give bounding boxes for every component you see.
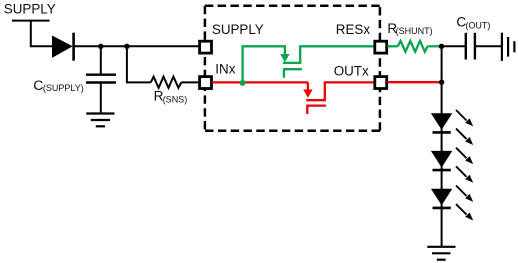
junction node B [124, 44, 129, 49]
wire capacitor to ground [100, 83, 102, 114]
supply rail bar [12, 20, 50, 22]
wire node A down to capacitor [100, 46, 102, 74]
LED D4 emission arrow 2 [456, 204, 473, 220]
capacitor C(SUPPLY) top plate [86, 73, 116, 75]
LED D3 emission arrow 1 [456, 148, 473, 164]
svg-text:INx: INx [215, 61, 235, 76]
svg-text:SUPPLY: SUPPLY [4, 1, 56, 16]
wire from supply bar down and right [31, 21, 52, 47]
LED D4 cathode bar [433, 207, 451, 210]
svg-text:(SHUNT): (SHUNT) [396, 26, 433, 36]
junction node green dot [240, 80, 246, 86]
LED D2 emission arrow 1 [456, 110, 473, 126]
pin RESx square [375, 41, 387, 53]
capacitor C(SUPPLY) bottom plate [86, 81, 116, 83]
capacitor C(OUT) left plate [465, 33, 467, 60]
LED D4 emission arrow 1 [456, 186, 473, 202]
LED D2 cathode bar [433, 131, 451, 134]
ground G1 [86, 114, 114, 127]
svg-text:RESx: RESx [336, 22, 371, 37]
wire output capacitor to ground [475, 45, 502, 47]
transistor Q2 channel bar (red) [306, 99, 326, 101]
wire LED string vertical [441, 46, 443, 247]
wire green tap up from node (green) [243, 46, 285, 83]
IC dashed box U1 [205, 6, 380, 131]
transistor Q1 gate plate (green) [283, 68, 302, 70]
transistor Q2 gate arrow (red) [303, 90, 312, 98]
resistor R(SNS) [151, 77, 182, 88]
transistor Q1 drain lead up and wire to RESx pin (green) [300, 46, 373, 63]
transistor Q2 gate lead down (red) [306, 106, 308, 114]
LED D3 triangle [431, 151, 452, 168]
LED D3 emission arrow 2 [456, 166, 473, 182]
LED D2 triangle [431, 113, 452, 130]
LED D2 emission arrow 2 [456, 129, 473, 145]
wire RESx pin to shunt resistor (green) [387, 45, 398, 47]
wire INx pin to red net (red) [212, 81, 308, 83]
svg-text:(SNS): (SNS) [163, 94, 188, 104]
transistor Q2 drain lead up and wire to OUTx pin (red) [325, 82, 374, 100]
svg-text:OUTx: OUTx [334, 63, 369, 78]
ground G3 sideways [502, 33, 515, 61]
resistor R(SHUNT) (green) [398, 41, 428, 52]
ground G2 [427, 247, 455, 260]
junction node D [439, 44, 444, 49]
diode D1 cathode bar [72, 33, 75, 61]
capacitor C(OUT) right plate [474, 33, 476, 60]
wire node D to output capacitor [442, 45, 467, 47]
diode D1 anode triangle [52, 36, 73, 58]
wire red down to transistor Q2 (red) [307, 82, 309, 90]
junction node A [98, 44, 103, 49]
svg-text:(OUT): (OUT) [465, 21, 490, 31]
junction node C [439, 80, 444, 85]
LED D4 triangle [431, 189, 452, 206]
svg-text:SUPPLY: SUPPLY [212, 22, 264, 37]
wire diode to SUPPLY pin [74, 45, 199, 47]
wire shunt resistor to node D (green) [428, 45, 442, 47]
svg-text:(SUPPLY): (SUPPLY) [43, 83, 84, 93]
pin INx square [200, 77, 212, 89]
transistor Q1 channel bar (green) [283, 62, 301, 64]
pin OUTx square [375, 77, 387, 89]
LED D3 cathode bar [433, 169, 451, 172]
transistor Q2 gate plate (red) [306, 104, 326, 106]
wire node B down and right to resistor [127, 46, 151, 82]
transistor Q1 gate arrow (green) [280, 54, 289, 62]
transistor Q1 gate lead down (green) [283, 69, 285, 78]
pin SUPPLY square [200, 41, 212, 53]
wire resistor to INx pin [181, 81, 198, 83]
wire OUTx pin to node C (red) [387, 81, 441, 83]
